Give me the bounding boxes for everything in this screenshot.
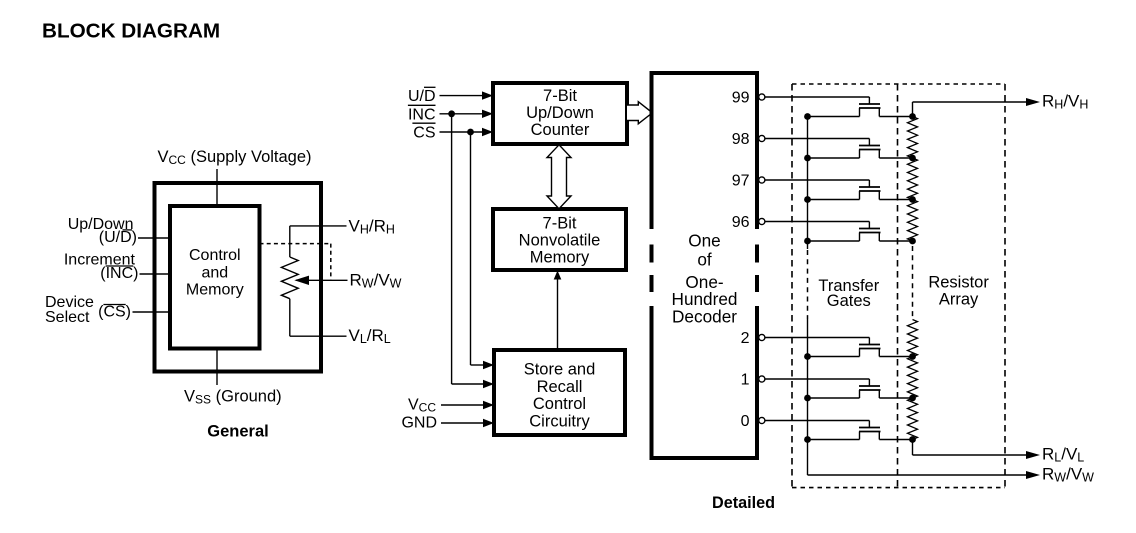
svg-text:CS: CS: [413, 124, 435, 141]
svg-text:and: and: [201, 264, 228, 281]
svg-text:97: 97: [732, 173, 750, 190]
svg-text:Recall: Recall: [537, 378, 583, 396]
svg-text:Nonvolatile: Nonvolatile: [519, 232, 601, 250]
svg-text:1: 1: [741, 372, 750, 389]
svg-text:7-Bit: 7-Bit: [543, 215, 577, 233]
svg-text:Up/Down: Up/Down: [526, 104, 594, 122]
svg-text:Control: Control: [533, 395, 586, 413]
svg-text:(CS): (CS): [98, 304, 131, 321]
svg-text:GND: GND: [401, 415, 437, 432]
svg-text:(INC): (INC): [100, 265, 138, 282]
svg-text:Store and: Store and: [524, 361, 596, 379]
svg-text:96: 96: [732, 214, 750, 231]
svg-text:INC: INC: [408, 106, 436, 123]
svg-text:One: One: [688, 231, 721, 251]
svg-text:Decoder: Decoder: [672, 307, 737, 327]
svg-text:99: 99: [732, 90, 750, 107]
svg-text:Memory: Memory: [186, 282, 244, 299]
svg-text:of: of: [697, 250, 712, 270]
svg-text:0: 0: [741, 413, 750, 430]
svg-text:U/D: U/D: [408, 88, 436, 105]
svg-text:Memory: Memory: [530, 249, 590, 267]
svg-text:Select: Select: [45, 309, 90, 326]
svg-text:Counter: Counter: [531, 121, 590, 139]
svg-text:Detailed: Detailed: [712, 494, 775, 512]
svg-text:Control: Control: [189, 247, 241, 264]
svg-text:2: 2: [741, 330, 750, 347]
svg-text:General: General: [207, 423, 268, 441]
svg-text:(U/D): (U/D): [99, 229, 137, 246]
svg-text:98: 98: [732, 131, 750, 148]
svg-text:BLOCK DIAGRAM: BLOCK DIAGRAM: [42, 20, 220, 43]
svg-text:Circuitry: Circuitry: [529, 412, 590, 430]
svg-text:Gates: Gates: [827, 292, 871, 310]
svg-text:7-Bit: 7-Bit: [543, 87, 577, 105]
svg-text:Resistor: Resistor: [928, 274, 989, 292]
svg-text:Array: Array: [939, 290, 979, 308]
